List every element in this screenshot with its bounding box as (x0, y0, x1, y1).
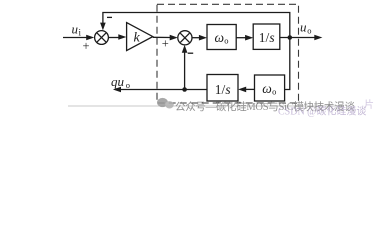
input label u_i (72, 22, 82, 38)
wire: block w2 to block i2 (238, 87, 254, 93)
wire: qu_o output to the left (113, 87, 207, 93)
wire: output u_o (280, 35, 323, 41)
summing junction S2 (178, 31, 192, 45)
wire: summer1 to gain k (108, 34, 126, 40)
wire: top feedback (100, 13, 290, 38)
block i1 (1/s integrator, top) (253, 24, 280, 49)
node N1 (junction dot after 1/s) (288, 35, 293, 40)
svg-text:CSDN @碳化硅漫谈: CSDN @碳化硅漫谈 (278, 105, 366, 118)
svg-text:k: k (134, 31, 141, 46)
svg-text:o: o (307, 25, 311, 35)
output label u_o (300, 19, 311, 35)
svg-text:+: + (162, 37, 169, 51)
wire: down from node N1 to bottom row (285, 38, 290, 90)
block w1 (omega_o, top) (207, 25, 236, 50)
summing junction S1 (95, 31, 109, 45)
wire: gain k to summer2 (153, 35, 178, 41)
svg-text:+: + (82, 39, 89, 53)
wire: block w1 to block i1 (236, 35, 253, 41)
svg-text:片: 片 (364, 98, 374, 111)
minus sign at summer 2 (188, 52, 194, 54)
wire: u_i input (63, 35, 94, 41)
svg-text:qu: qu (111, 74, 125, 89)
svg-text:ω: ω (215, 30, 225, 45)
gain k (triangle) (127, 23, 153, 51)
wire: node N2 up into summer2 (182, 45, 188, 90)
watermark icon (157, 98, 174, 109)
node N2 (junction dot on qu_o line) (182, 87, 187, 92)
svg-text:1/s: 1/s (215, 82, 231, 97)
svg-text:1/s: 1/s (259, 30, 275, 45)
wire: summer2 to block w1 (192, 35, 207, 41)
svg-text:o: o (126, 80, 130, 90)
svg-text:u: u (72, 22, 79, 37)
watermark separator line (68, 105, 343, 107)
svg-text:o: o (272, 87, 276, 97)
dashed SOGI boundary box (157, 4, 299, 103)
minus sign at summer 1 feedback (107, 16, 112, 18)
output label qu_o (111, 74, 130, 90)
svg-text:o: o (224, 36, 228, 46)
svg-text:u: u (300, 19, 307, 34)
block w2 (omega_o, bottom) (255, 75, 285, 101)
svg-text:ω: ω (262, 81, 272, 96)
block i2 (1/s integrator, bottom) (207, 75, 238, 102)
